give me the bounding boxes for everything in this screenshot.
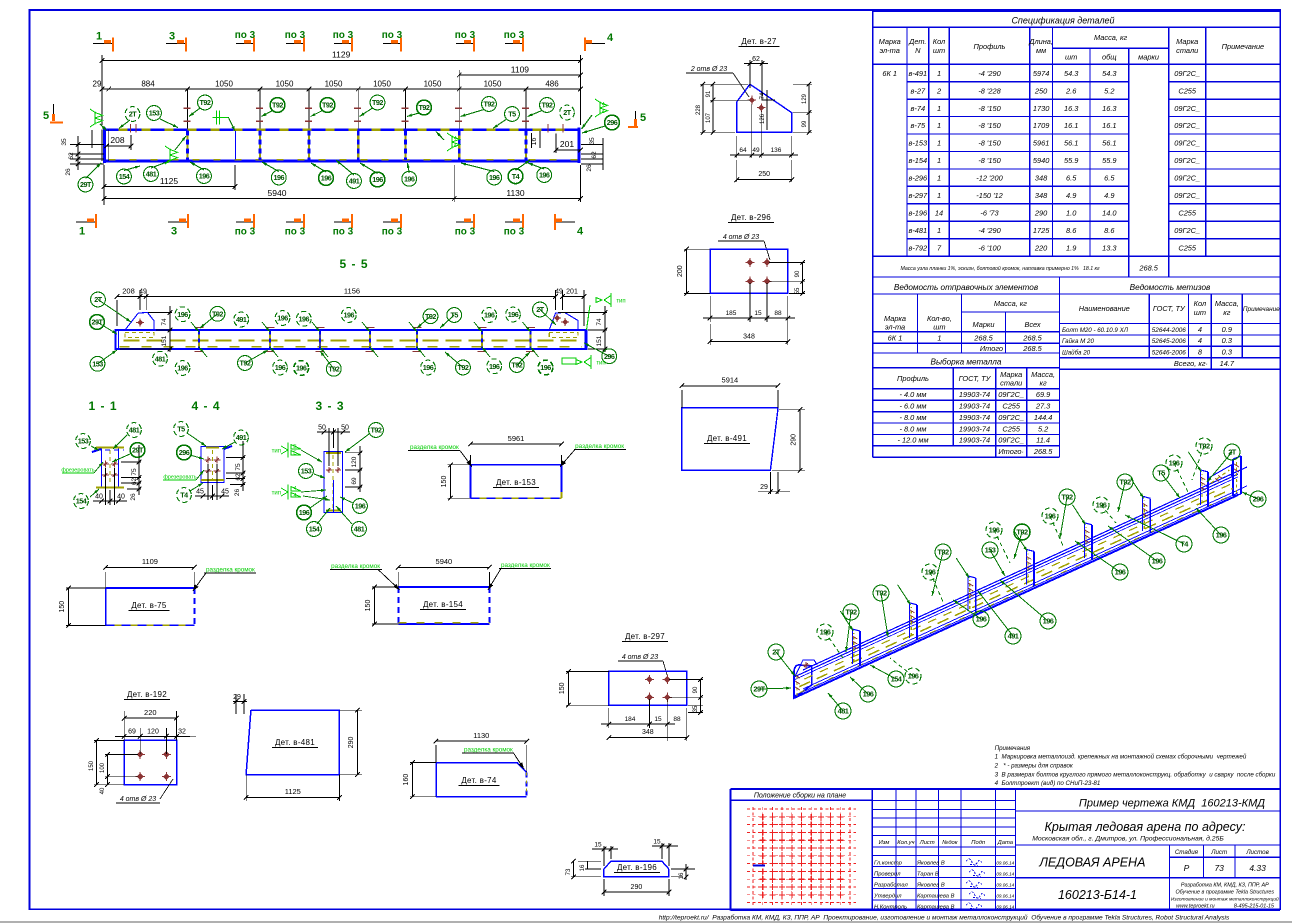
- dimension 1109: [458, 70, 460, 92]
- svg-text:1: 1: [937, 334, 941, 343]
- svg-text:4 отв Ø 23: 4 отв Ø 23: [622, 654, 658, 661]
- stiffener plate v-196 #6: [1142, 496, 1144, 531]
- svg-text:29Т: 29Т: [132, 446, 144, 455]
- svg-text:-4 '290: -4 '290: [978, 226, 1001, 235]
- svg-text:www.teproekt.ru: www.teproekt.ru: [1176, 903, 1215, 909]
- svg-text:1125: 1125: [160, 176, 179, 186]
- svg-text:Спецификация деталей: Спецификация деталей: [1011, 16, 1114, 26]
- svg-text:4: 4: [293, 486, 296, 492]
- svg-text:196: 196: [976, 615, 987, 624]
- svg-text:196: 196: [1216, 531, 1227, 540]
- svg-text:296: 296: [607, 118, 618, 127]
- olive centreline dashes back: [804, 481, 1237, 679]
- svg-text:Т92: Т92: [1061, 493, 1073, 502]
- svg-text:1050: 1050: [484, 80, 502, 89]
- svg-text:6К 1: 6К 1: [888, 334, 903, 343]
- svg-text:250: 250: [1034, 86, 1048, 95]
- vert dims 74 151 left: [148, 312, 172, 314]
- mark 196 iso: [890, 658, 913, 676]
- svg-text:196: 196: [299, 508, 310, 517]
- svg-text:-8 '228: -8 '228: [978, 86, 1001, 95]
- svg-text:09.06.14: 09.06.14: [996, 904, 1014, 909]
- stiffener plate v-196 #5: [1084, 523, 1086, 558]
- svg-text:3 - 3: 3 - 3: [315, 399, 344, 413]
- svg-text:Р: Р: [1184, 863, 1190, 873]
- dims v-296 200 90 55: [684, 248, 710, 250]
- beam bottom back edge: [803, 486, 1247, 689]
- right gusset plate v-27 on 5-5: [549, 313, 578, 331]
- svg-text:153: 153: [78, 437, 89, 446]
- svg-text:Т92: Т92: [875, 589, 887, 598]
- svg-text:26: 26: [234, 489, 241, 497]
- svg-text:1: 1: [79, 226, 85, 238]
- svg-text:09Г2С_: 09Г2С_: [998, 413, 1024, 422]
- svg-text:1730: 1730: [1033, 104, 1050, 113]
- mark Т92 iso: [846, 612, 851, 652]
- weld flags tip 4 section 3-3: [281, 485, 288, 500]
- svg-text:196: 196: [484, 311, 495, 320]
- svg-text:196: 196: [863, 690, 874, 699]
- dims 50 50 section 3-3: [328, 428, 330, 466]
- svg-text:Шайба 20: Шайба 20: [1062, 350, 1091, 357]
- svg-text:1709: 1709: [1033, 121, 1049, 130]
- svg-text:29Т: 29Т: [92, 318, 104, 327]
- svg-text:4.9: 4.9: [1066, 191, 1076, 200]
- title block frame: [731, 788, 1281, 790]
- svg-text:1: 1: [937, 226, 941, 235]
- svg-text:151: 151: [596, 335, 603, 346]
- svg-text:5940: 5940: [1033, 156, 1050, 165]
- svg-text:разделка кромок: разделка кромок: [410, 444, 459, 451]
- svg-text:486: 486: [545, 80, 559, 89]
- svg-text:35: 35: [693, 705, 699, 712]
- svg-text:4.33: 4.33: [1249, 863, 1266, 873]
- svg-text:Лист: Лист: [1210, 849, 1227, 856]
- mark 196 iso: [1101, 505, 1116, 523]
- svg-text:153: 153: [92, 359, 103, 368]
- svg-text:Т92: Т92: [240, 359, 251, 368]
- svg-text:268.5: 268.5: [1033, 447, 1053, 456]
- svg-text:2Т: 2Т: [772, 648, 781, 657]
- svg-text:15: 15: [754, 310, 762, 317]
- svg-text:Карташева В: Карташева В: [917, 893, 955, 899]
- svg-text:Т92: Т92: [845, 608, 857, 617]
- svg-text:С255: С255: [1178, 209, 1197, 218]
- gusset at left end: [795, 660, 817, 676]
- svg-text:09Г2С_: 09Г2С_: [1174, 156, 1200, 165]
- svg-text:в-792: в-792: [908, 243, 927, 252]
- svg-text:49: 49: [555, 289, 563, 296]
- svg-text:Гл.констр: Гл.констр: [874, 860, 903, 866]
- svg-text:по 3: по 3: [504, 30, 525, 41]
- svg-text:Ведомость метизов: Ведомость метизов: [1130, 283, 1211, 292]
- svg-text:29: 29: [760, 484, 768, 491]
- svg-text:Масса,: Масса,: [1215, 299, 1239, 308]
- svg-text:Т92: Т92: [542, 101, 553, 110]
- svg-text:196: 196: [489, 362, 500, 371]
- mark 296 iso: [1242, 492, 1258, 499]
- svg-text:4 - 4: 4 - 4: [191, 399, 220, 413]
- svg-text:1 - 1: 1 - 1: [88, 399, 117, 413]
- svg-text:19903-74: 19903-74: [959, 413, 990, 422]
- mark Т92 iso: [1118, 482, 1125, 512]
- mark 196 iso: [1050, 516, 1064, 548]
- svg-text:09.06.14: 09.06.14: [996, 893, 1014, 898]
- weld symbol tip: [604, 293, 611, 307]
- svg-text:74: 74: [760, 92, 766, 99]
- stiffener plate v-196 #7: [1199, 470, 1201, 505]
- svg-text:196: 196: [344, 311, 355, 320]
- svg-text:348: 348: [1035, 174, 1048, 183]
- svg-text:2: 2: [936, 86, 941, 95]
- svg-text:1: 1: [937, 104, 941, 113]
- svg-text:Дет.: Дет.: [908, 37, 926, 46]
- circles section 1-1: [91, 446, 99, 451]
- svg-text:196: 196: [489, 173, 500, 182]
- svg-text:марки: марки: [1138, 53, 1159, 62]
- svg-text:Утвердил: Утвердил: [873, 893, 902, 899]
- svg-text:45: 45: [221, 489, 229, 496]
- svg-text:348: 348: [642, 729, 654, 736]
- svg-text:Примечание: Примечание: [1222, 42, 1265, 51]
- svg-text:Марка: Марка: [879, 37, 901, 46]
- svg-text:154: 154: [76, 497, 87, 506]
- beam right end cap plate v-296: [1232, 459, 1234, 496]
- svg-text:09Г2С_: 09Г2С_: [1174, 191, 1200, 200]
- svg-text:8.6: 8.6: [1104, 226, 1115, 235]
- dims v-27 64 49 136: [751, 104, 753, 158]
- svg-text:-150 '12: -150 '12: [976, 191, 1002, 200]
- svg-text:15: 15: [594, 842, 602, 849]
- svg-text:196: 196: [299, 314, 310, 323]
- svg-text:56.1: 56.1: [1102, 139, 1116, 148]
- svg-text:по 3: по 3: [455, 227, 476, 238]
- section mark po 3: [286, 43, 304, 45]
- svg-text:14: 14: [935, 209, 943, 218]
- main title cells: [1015, 810, 1280, 812]
- svg-text:в-27: в-27: [911, 86, 926, 95]
- section 4-4 profile: [201, 447, 224, 483]
- dims v-192 69 120 32: [139, 728, 141, 754]
- svg-text:5.2: 5.2: [1038, 424, 1048, 433]
- svg-text:по 3: по 3: [285, 227, 306, 238]
- svg-text:290: 290: [1034, 209, 1048, 218]
- svg-text:16: 16: [531, 138, 538, 146]
- mark 196 iso: [1174, 463, 1188, 492]
- mark 196 iso: [994, 530, 1010, 563]
- svg-text:кг: кг: [1223, 308, 1230, 317]
- svg-text:3 В размерах болтов круглого: 3 В размерах болтов круглого прямого мет…: [995, 772, 1276, 779]
- svg-text:296: 296: [179, 448, 190, 457]
- svg-text:-8 '150: -8 '150: [978, 104, 1001, 113]
- svg-text:29: 29: [93, 80, 102, 89]
- svg-text:по 3: по 3: [333, 30, 354, 41]
- svg-text:196: 196: [1043, 617, 1054, 626]
- svg-text:8-495-215-01-15: 8-495-215-01-15: [1234, 903, 1275, 909]
- svg-text:2Т: 2Т: [94, 295, 102, 304]
- svg-text:19903-74: 19903-74: [959, 436, 990, 445]
- stiffener marks on 5-5: [198, 331, 200, 349]
- weld symbol: [170, 150, 178, 156]
- spec summary row: [873, 255, 1281, 257]
- svg-text:разделка кромок: разделка кромок: [331, 563, 380, 570]
- svg-text:Стадия: Стадия: [1175, 849, 1199, 856]
- beam bottom flange: [105, 160, 581, 163]
- svg-text:268.5: 268.5: [973, 334, 993, 343]
- svg-text:49: 49: [139, 289, 147, 296]
- svg-text:196: 196: [275, 363, 286, 372]
- svg-text:27.3: 27.3: [1035, 402, 1051, 411]
- svg-text:С255: С255: [1178, 86, 1197, 95]
- mark 196 iso: [1196, 508, 1221, 535]
- svg-text:в-296: в-296: [908, 174, 928, 183]
- spec table outer borders: [873, 10, 1281, 12]
- svg-text:шт: шт: [933, 46, 945, 55]
- svg-text:184: 184: [625, 716, 636, 723]
- svg-text:С255: С255: [1002, 424, 1021, 433]
- section 1-1 left flange mark: [92, 449, 101, 452]
- svg-text:Т92: Т92: [1016, 528, 1028, 537]
- svg-text:136: 136: [771, 147, 782, 154]
- svg-text:Итого·: Итого·: [998, 447, 1024, 456]
- svg-text:49: 49: [752, 147, 760, 154]
- svg-text:74: 74: [161, 318, 168, 326]
- svg-text:2Т: 2Т: [563, 108, 571, 117]
- svg-text:тип: тип: [616, 299, 625, 305]
- svg-text:в-74: в-74: [911, 104, 926, 113]
- svg-text:Т5: Т5: [451, 311, 459, 320]
- svg-text:35: 35: [589, 137, 596, 145]
- dims 40 40 section 1-1: [105, 468, 107, 505]
- svg-text:884: 884: [141, 80, 155, 89]
- svg-text:Кол: Кол: [933, 37, 946, 46]
- dims v-192 left 150 100 40: [94, 739, 124, 741]
- svg-text:4: 4: [602, 102, 605, 108]
- dims v-192 220: [123, 711, 125, 740]
- section mark po 3: [236, 221, 254, 223]
- svg-text:Кол.уч: Кол.уч: [897, 840, 914, 846]
- svg-text:208: 208: [122, 287, 135, 296]
- svg-text:196: 196: [1115, 568, 1126, 577]
- section mark po 3: [456, 43, 474, 45]
- svg-text:Профиль: Профиль: [897, 374, 929, 383]
- svg-text:Лист: Лист: [919, 840, 935, 846]
- svg-text:481: 481: [129, 426, 140, 435]
- svg-text:55: 55: [795, 287, 801, 294]
- svg-text:4: 4: [602, 109, 605, 115]
- svg-text:в-154: в-154: [908, 156, 927, 165]
- svg-text:5: 5: [43, 110, 49, 122]
- mark 154 iso: [870, 665, 896, 679]
- dims 208 49 on 5-5: [116, 300, 118, 326]
- svg-text:120: 120: [351, 456, 358, 467]
- svg-text:6.5: 6.5: [1066, 174, 1077, 183]
- svg-text:в-153: в-153: [908, 139, 928, 148]
- mark 196 iso: [850, 677, 868, 694]
- section 1-1 profile: [101, 447, 103, 489]
- olive centreline dashes front: [799, 489, 1232, 687]
- svg-text:481: 481: [838, 707, 849, 716]
- svg-text:3: 3: [169, 31, 175, 43]
- part circles 5-5: [98, 300, 131, 323]
- svg-text:тип: тип: [272, 491, 281, 497]
- svg-text:4: 4: [454, 136, 457, 142]
- svg-text:по 3: по 3: [235, 30, 256, 41]
- svg-text:55.9: 55.9: [1064, 156, 1078, 165]
- svg-text:стали: стали: [1176, 46, 1198, 55]
- svg-text:по 3: по 3: [235, 227, 256, 238]
- svg-text:1130: 1130: [506, 188, 525, 198]
- svg-text:11.4: 11.4: [1036, 436, 1050, 445]
- svg-text:- 8.0 мм: - 8.0 мм: [900, 424, 927, 433]
- svg-text:69: 69: [351, 477, 358, 485]
- svg-text:151: 151: [161, 335, 168, 346]
- svg-text:-6 '73: -6 '73: [980, 209, 999, 218]
- svg-text:196: 196: [177, 310, 188, 319]
- circles section 4-4: [187, 433, 206, 446]
- svg-text:150: 150: [365, 600, 372, 612]
- svg-text:1129: 1129: [332, 50, 351, 60]
- svg-text:в-481: в-481: [908, 226, 927, 235]
- svg-text:160213-Б14-1: 160213-Б14-1: [1058, 888, 1137, 902]
- svg-text:Ведомость отправочных элементо: Ведомость отправочных элементов: [894, 283, 1039, 292]
- svg-text:40: 40: [117, 494, 125, 501]
- svg-text:150: 150: [89, 760, 95, 771]
- svg-text:в-297: в-297: [908, 191, 928, 200]
- svg-text:29Т: 29Т: [80, 180, 92, 189]
- svg-text:Дет. в-74: Дет. в-74: [461, 776, 497, 785]
- svg-text:Т92: Т92: [272, 101, 283, 110]
- svg-text:144.4: 144.4: [1034, 413, 1053, 422]
- svg-text:1109: 1109: [511, 65, 530, 75]
- svg-text:-4 '290: -4 '290: [978, 69, 1001, 78]
- svg-text:19903-74: 19903-74: [959, 424, 990, 433]
- svg-text:150: 150: [59, 601, 66, 613]
- dims 75 62 26 section 1-1: [121, 461, 141, 463]
- svg-text:50: 50: [341, 425, 349, 432]
- svg-text:196: 196: [508, 310, 519, 319]
- svg-text:Гайка М 20: Гайка М 20: [1062, 338, 1094, 345]
- svg-text:Т4: Т4: [180, 491, 188, 500]
- left end dims 35 62 26: [70, 143, 104, 145]
- section 3-3 profile: [324, 452, 343, 513]
- svg-text:5.2: 5.2: [1104, 86, 1114, 95]
- svg-text:74: 74: [596, 318, 603, 326]
- right end dims 35 62 26: [583, 135, 605, 141]
- svg-text:эл-та: эл-та: [885, 323, 905, 332]
- svg-text:32: 32: [178, 729, 186, 736]
- svg-text:75: 75: [235, 463, 242, 471]
- svg-text:491: 491: [236, 315, 247, 324]
- beam bottom front edge 2: [794, 493, 1238, 696]
- svg-text:154: 154: [891, 675, 903, 684]
- stiffener plate v-196 #4: [1025, 549, 1027, 584]
- mark 29Т iso: [759, 688, 791, 689]
- svg-text:1130: 1130: [473, 731, 489, 740]
- svg-text:0.9: 0.9: [1222, 325, 1232, 334]
- svg-text:Дет. в-27: Дет. в-27: [741, 37, 777, 46]
- mark 491 iso: [978, 591, 1013, 636]
- svg-text:Т92: Т92: [322, 101, 333, 110]
- section mark 5 right: [635, 111, 637, 128]
- svg-text:Болт М20 - 60.10.9 ХЛ: Болт М20 - 60.10.9 ХЛ: [1062, 327, 1129, 334]
- svg-text:196: 196: [908, 672, 919, 681]
- svg-text:1.0: 1.0: [1066, 209, 1077, 218]
- svg-text:- 6.0 мм: - 6.0 мм: [900, 402, 927, 411]
- svg-text:120: 120: [147, 729, 159, 736]
- section mark 3: [166, 43, 186, 45]
- svg-text:Н.Контроль: Н.Контроль: [874, 904, 907, 910]
- svg-text:5974: 5974: [1033, 69, 1049, 78]
- svg-text:Дет. в-154: Дет. в-154: [423, 600, 463, 609]
- svg-text:09Г2С_: 09Г2С_: [1174, 174, 1200, 183]
- mark Т92 iso: [1192, 446, 1204, 480]
- svg-text:09.06.14: 09.06.14: [996, 882, 1014, 887]
- svg-text:в-75: в-75: [911, 121, 926, 130]
- circles section 3-3: [345, 434, 369, 452]
- svg-text:5914: 5914: [722, 376, 739, 385]
- svg-text:Т92: Т92: [328, 364, 339, 373]
- svg-text:56.1: 56.1: [1064, 139, 1078, 148]
- section mark po 3: [236, 43, 254, 45]
- svg-text:тип: тип: [272, 449, 281, 455]
- weld symbol: [452, 137, 460, 143]
- svg-text:ЛЕДОВАЯ АРЕНА: ЛЕДОВАЯ АРЕНА: [1038, 856, 1145, 870]
- mark Т92 iso: [881, 593, 888, 637]
- svg-text:09Г2С_: 09Г2С_: [1174, 104, 1200, 113]
- svg-text:19903-74: 19903-74: [959, 390, 990, 399]
- svg-text:Проверил: Проверил: [874, 871, 901, 877]
- stadia list cells: [1169, 845, 1171, 878]
- svg-text:196: 196: [277, 314, 288, 323]
- dimension 1129 overall: [101, 55, 103, 125]
- svg-text:Разработка КМ, КМД, КЗ, ППР, А: Разработка КМ, КМД, КЗ, ППР, АР: [1181, 883, 1269, 889]
- section mark 4 top: [585, 43, 605, 45]
- stiffener plate v-196 #1: [851, 629, 853, 664]
- svg-text:N: N: [915, 46, 921, 55]
- svg-text:Пример чертежа КМД 160213-КМД: Пример чертежа КМД 160213-КМД: [1079, 798, 1265, 810]
- dims v-27 129 99: [793, 83, 812, 85]
- svg-text:мм: мм: [1036, 46, 1046, 55]
- svg-text:196: 196: [355, 502, 366, 511]
- svg-text:491: 491: [1008, 632, 1019, 641]
- svg-text:54.3: 54.3: [1102, 69, 1117, 78]
- svg-text:Т92: Т92: [484, 100, 495, 109]
- svg-text:200: 200: [677, 265, 684, 277]
- svg-text:в-196: в-196: [908, 209, 928, 218]
- svg-text:1: 1: [937, 139, 941, 148]
- svg-text:09Г2С_: 09Г2С_: [998, 436, 1024, 445]
- svg-text:ГОСТ, ТУ: ГОСТ, ТУ: [959, 374, 992, 383]
- svg-text:Наименование: Наименование: [1079, 304, 1130, 313]
- svg-text:по 3: по 3: [382, 227, 403, 238]
- svg-text:29Т: 29Т: [753, 685, 765, 694]
- svg-text:160: 160: [403, 774, 410, 786]
- svg-text:16.1: 16.1: [1064, 121, 1078, 130]
- svg-text:1 Маркировка металлоизд. креп: 1 Маркировка металлоизд. крепежных на мо…: [995, 754, 1247, 761]
- svg-text:88: 88: [774, 310, 782, 317]
- svg-text:153: 153: [985, 546, 996, 555]
- svg-text:Марки: Марки: [972, 320, 994, 329]
- svg-text:73: 73: [1214, 863, 1224, 873]
- svg-text:Т92: Т92: [511, 361, 522, 370]
- svg-text:Дет. в-75: Дет. в-75: [131, 601, 167, 610]
- svg-text:- 8.0 мм: - 8.0 мм: [900, 413, 927, 422]
- svg-text:150: 150: [559, 682, 566, 694]
- svg-text:52645-2006: 52645-2006: [1152, 338, 1187, 345]
- svg-text:http://teproekt.ru/ Разработк: http://teproekt.ru/ Разработка КМ, КМД, …: [659, 914, 1230, 922]
- svg-text:09Г2С_: 09Г2С_: [1174, 226, 1200, 235]
